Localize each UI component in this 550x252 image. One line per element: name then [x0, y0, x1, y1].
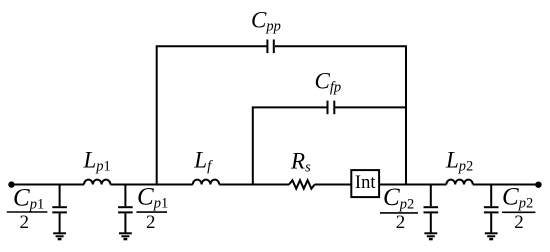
svg-text:2: 2 — [514, 212, 524, 233]
capacitor Cp1/2 second: lead — [124, 185, 126, 207]
capacitor Cp1/2 left: plates — [52, 206, 67, 208]
wire Lf to Rs — [219, 184, 289, 186]
resistor Rs — [289, 180, 315, 189]
Int box — [351, 170, 379, 197]
wire Cfp rail left — [252, 106, 327, 108]
svg-text:Cp2: Cp2 — [383, 184, 414, 212]
svg-text:Cp2: Cp2 — [502, 183, 533, 211]
wire right feedback vertical — [405, 46, 407, 184]
svg-text:Rs: Rs — [290, 148, 311, 175]
capacitor Cpp plates — [266, 40, 268, 54]
wire Lp1 to Lf — [110, 184, 192, 186]
capacitor Cp1/2 left: lower lead — [59, 213, 61, 233]
svg-text:Lf: Lf — [193, 147, 213, 174]
node right port dot — [535, 182, 541, 188]
inductor Lp1 — [84, 180, 110, 185]
svg-text:Lp2: Lp2 — [445, 147, 473, 174]
capacitor Cp1/2 second: lower lead — [124, 213, 126, 233]
capacitor Cp2/2 third: plates — [424, 206, 439, 208]
wire Cpp branch left vertical — [156, 46, 158, 184]
svg-text:Lp1: Lp1 — [83, 147, 111, 174]
ground 1 — [53, 232, 66, 234]
svg-text:2: 2 — [146, 212, 156, 233]
label Cp2/2 fraction 3 bar — [380, 212, 418, 214]
svg-text:2: 2 — [19, 212, 29, 233]
svg-text:Cp1: Cp1 — [137, 183, 168, 211]
svg-text:Cp1: Cp1 — [13, 184, 44, 212]
capacitor Cp2/2 fourth: lead — [490, 185, 492, 207]
capacitor Cp1/2 left: lead — [59, 185, 61, 207]
svg-text:Int: Int — [355, 173, 376, 193]
capacitor Cp2/2 third: lead — [430, 185, 432, 207]
wire Lp2 to right port — [473, 184, 539, 186]
svg-text:Cfp: Cfp — [315, 68, 342, 95]
wire main left segment — [12, 184, 85, 186]
wire Int to node B — [379, 184, 446, 186]
label Cp1/2 fraction 2 bar — [137, 211, 168, 213]
capacitor Cp2/2 fourth: lower lead — [490, 213, 492, 233]
inductor Lp2 — [446, 180, 472, 185]
wire Cfp rail right — [335, 106, 407, 108]
capacitor Cp2/2 third: lower lead — [430, 213, 432, 233]
svg-text:2: 2 — [396, 212, 406, 233]
wire Cfp branch left vertical — [252, 107, 254, 184]
svg-text:Cpp: Cpp — [251, 8, 281, 35]
capacitor Cp2/2 fourth: plates — [484, 206, 499, 208]
ground 3 — [424, 232, 437, 234]
node left port dot — [8, 181, 14, 187]
label Cp2/2 fraction 4 bar — [502, 211, 535, 213]
capacitor Cfp plates — [327, 101, 329, 115]
ground 2 — [119, 232, 132, 234]
wire Rs to Int — [315, 184, 352, 186]
inductor Lf — [193, 180, 219, 185]
capacitor Cp1/2 second: plates — [118, 206, 133, 208]
label Cp1/2 fraction 1 bar — [7, 211, 48, 213]
wire Cpp rail right — [275, 45, 407, 47]
wire Cpp rail left — [156, 45, 267, 47]
ground 4 — [485, 232, 498, 234]
